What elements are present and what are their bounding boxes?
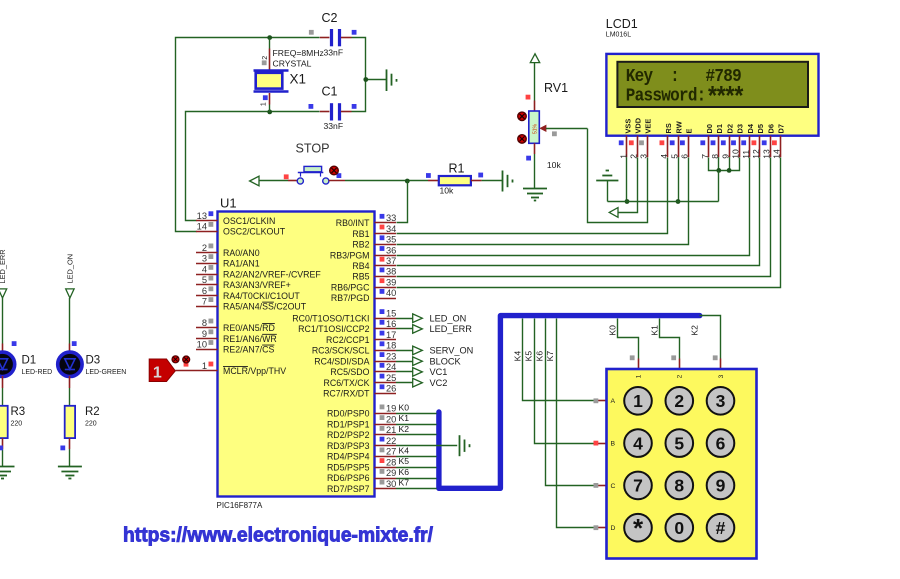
terminal output arrow SERV_ON (pin 18) (396, 346, 473, 356)
svg-text:D4: D4 (746, 123, 755, 133)
svg-text:35: 35 (386, 235, 396, 245)
wire VSS (LCD pin1) to ground rail (626, 157, 628, 201)
svg-text:LCD1: LCD1 (606, 17, 638, 31)
X1 reference label (290, 72, 307, 87)
keypad button 5 (666, 429, 694, 457)
svg-text:RB5: RB5 (352, 272, 369, 282)
svg-text:D6: D6 (766, 124, 775, 133)
svg-text:D3: D3 (736, 124, 745, 133)
svg-text:RD3/PSP3: RD3/PSP3 (327, 441, 370, 451)
U1 pin 35 (RB2) right (352, 235, 396, 250)
D3 type label LED-GREEN (86, 369, 127, 376)
svg-text:K4: K4 (512, 351, 522, 362)
LED D3 (58, 352, 82, 376)
wire RS (LCD pin4) to RB1 (397, 158, 668, 234)
RV1 state squares (526, 95, 557, 161)
D1 state squares (0, 341, 16, 450)
svg-text:11: 11 (741, 150, 751, 159)
svg-text:RA4/T0CKI/C1OUT: RA4/T0CKI/C1OUT (223, 291, 300, 301)
wire D7 (LCD pin14) to RB6 (397, 158, 781, 288)
ground (RD3, right-pointing) (460, 435, 470, 456)
svg-text:17: 17 (386, 330, 396, 340)
wire K1 bus to keypad column 2 (660, 319, 680, 370)
svg-text:19: 19 (386, 404, 396, 414)
D3 reference label (86, 355, 101, 367)
svg-text:13: 13 (761, 149, 771, 159)
crystal X1 (254, 38, 289, 112)
svg-text:9: 9 (716, 476, 726, 496)
svg-text:37: 37 (386, 256, 396, 266)
svg-text:6: 6 (202, 286, 207, 296)
terminal output arrow BLOCK (pin 23) (396, 356, 462, 366)
svg-text:#: # (716, 518, 726, 538)
ground (R3) (0, 467, 15, 479)
svg-text:K2: K2 (690, 325, 700, 336)
keypad button 7 (624, 472, 652, 500)
svg-text:3: 3 (716, 391, 726, 411)
svg-text:14: 14 (772, 149, 782, 159)
svg-text:23: 23 (386, 351, 396, 361)
wire D6 (LCD pin13) to RB5 (397, 158, 771, 277)
wire K1 (RD pin 20) to bus (396, 413, 437, 425)
wire OSC1 net (pin13 to crystal bottom node and C1) (186, 112, 320, 221)
svg-text:16: 16 (386, 319, 396, 329)
LCD1 pin 8 (D1) (710, 124, 724, 159)
wire K5 bus to keypad row (535, 319, 607, 444)
net label K0 (607, 325, 617, 336)
svg-text:RE2/AN7/CS: RE2/AN7/CS (223, 345, 274, 355)
wire RV1 top (534, 63, 536, 111)
svg-text:U1: U1 (220, 196, 237, 211)
keypad column state squares (630, 355, 718, 360)
X1 pin 2 state square (262, 60, 267, 65)
terminal input arrow (left of STOP) (250, 176, 259, 186)
X1 pin number 1 (260, 102, 267, 106)
U1 pin 16 (RC1) right (298, 319, 396, 334)
svg-text:D1: D1 (715, 124, 724, 133)
LED D1 (0, 352, 15, 376)
svg-text:2: 2 (677, 374, 684, 378)
svg-text:SERV_ON: SERV_ON (430, 346, 474, 356)
U1 pin 7 (RA5) left (196, 297, 307, 312)
node 1 flag (MCLR marker) (149, 359, 175, 382)
LCD1 pin 2 (VDD) (628, 117, 642, 159)
wire RB0 to STOP line (397, 181, 408, 223)
wire K0 (RD pin 19) to bus (396, 402, 437, 413)
wire R2 to ground (69, 438, 71, 467)
U1 pin 26 (RC7) right (323, 384, 396, 399)
svg-text:13: 13 (197, 211, 207, 221)
svg-text:2: 2 (202, 243, 207, 253)
wire K2 (RD pin 21) to bus (396, 424, 437, 435)
wire RW (LCD pin5) to ground rail (678, 157, 680, 201)
svg-text:27: 27 (386, 447, 396, 457)
svg-text:https://www.electronique-mixte: https://www.electronique-mixte.fr/ (123, 524, 433, 547)
wire terminal to D3 (69, 298, 71, 352)
svg-text:LED_ERR: LED_ERR (430, 324, 473, 334)
U1 pin 36 (RB3) right (330, 245, 396, 260)
node crystal bottom junction (267, 110, 272, 115)
svg-text:51%: 51% (533, 123, 539, 134)
push-button STOP (297, 166, 329, 184)
svg-text:12: 12 (751, 149, 761, 159)
svg-text:D0: D0 (705, 124, 714, 133)
svg-text:21: 21 (386, 425, 396, 435)
svg-text:RB0/INT: RB0/INT (336, 218, 370, 228)
keypad row labels A-D (611, 398, 616, 532)
svg-text:D2: D2 (726, 124, 735, 133)
svg-text:VEE: VEE (644, 119, 653, 134)
U1 pin 13 (OSC1) left (196, 211, 275, 226)
U1 pin 27 (RD4) right (327, 447, 396, 462)
svg-text:K0: K0 (607, 325, 617, 336)
svg-text:20: 20 (386, 414, 396, 424)
svg-text:RC7/RX/DT: RC7/RX/DT (323, 389, 370, 399)
C2 reference label (322, 11, 338, 25)
svg-text:RE0/AN5/RD: RE0/AN5/RD (223, 323, 275, 333)
svg-text:K5: K5 (523, 351, 533, 362)
keypad button 8 (666, 472, 694, 500)
wire K2 bus to keypad column 3 (700, 316, 721, 370)
svg-text:24: 24 (386, 362, 396, 372)
wire K0 bus to keypad column 1 (618, 319, 639, 370)
svg-text:RW: RW (674, 121, 683, 133)
terminal output arrow LED_ON (pin 15) (396, 313, 466, 323)
net label K2 (690, 325, 700, 336)
svg-text:33nF: 33nF (324, 121, 344, 131)
svg-text:K2: K2 (399, 424, 410, 434)
LCD1 pin 3 (VEE) (639, 119, 653, 159)
svg-text:36: 36 (386, 245, 396, 255)
X1 pin number 2 (262, 56, 269, 60)
ground (R2) (58, 467, 82, 479)
svg-text:8: 8 (202, 318, 207, 328)
svg-text:RD5/PSP5: RD5/PSP5 (327, 462, 370, 472)
LCD1 pin 14 (D7) (772, 124, 786, 159)
wire flag to MCLR pin 1 (175, 370, 196, 372)
svg-text:FREQ=8MHz: FREQ=8MHz (273, 48, 324, 58)
svg-text:X1: X1 (290, 72, 307, 87)
svg-text:RC1/T1OSI/CCP2: RC1/T1OSI/CCP2 (298, 324, 369, 334)
U1 pin 14 (OSC2) left (196, 222, 286, 237)
svg-text:RC6/TX/CK: RC6/TX/CK (324, 378, 370, 388)
keypad button 0 (666, 514, 694, 542)
wire K5 (RD pin 28) to bus (396, 456, 437, 468)
wire E (LCD pin6) to RB2 (397, 158, 689, 245)
svg-text:RB4: RB4 (352, 261, 369, 271)
op-amp/microcontroller U1 body (218, 212, 375, 497)
svg-text:D: D (611, 525, 616, 532)
LCD1 pin 6 (E) (680, 129, 694, 159)
keypad button 6 (707, 429, 735, 457)
U1 pin 8 (RE0) left (196, 318, 275, 333)
U1 pin 2 (RA0) left (196, 243, 260, 258)
ground (R1, right-pointing) (503, 171, 513, 192)
svg-text:2: 2 (262, 56, 269, 60)
svg-text:RD6/PSP6: RD6/PSP6 (327, 473, 370, 483)
keypad button # (707, 514, 735, 542)
wire STOP to R1 and RB0 (329, 180, 428, 182)
keypad button 4 (624, 429, 652, 457)
svg-text:10: 10 (197, 340, 207, 350)
svg-text:RS: RS (664, 123, 673, 133)
svg-text:RA3/AN3/VREF+: RA3/AN3/VREF+ (223, 280, 291, 290)
X1 pin 1 state square (263, 95, 268, 100)
U1 pin 21 (RD2) right (327, 425, 396, 440)
svg-text:LED_ON: LED_ON (66, 254, 75, 284)
svg-text:K4: K4 (399, 445, 410, 455)
LCD1 pin 5 (RW) (669, 121, 683, 159)
keypad body (607, 369, 757, 559)
LCD1 reference label (606, 17, 638, 31)
svg-text:VC2: VC2 (430, 378, 448, 388)
svg-text:RC4/SDI/SDA: RC4/SDI/SDA (314, 356, 369, 366)
LCD1 pin 12 (D5) (751, 124, 765, 159)
svg-text:K6: K6 (535, 351, 545, 362)
LCD1 pin 4 (RS) (659, 123, 673, 159)
flag actuator circles (172, 356, 190, 367)
wire D1 to R3 (2, 376, 4, 406)
U1 pin 6 (RA4) left (196, 286, 300, 301)
terminal input LED_ERR (above D1) (0, 289, 7, 298)
svg-text:RB7/PGD: RB7/PGD (331, 293, 370, 303)
wire VEE (LCD pin3) to RV1 wiper (588, 129, 648, 223)
keypad column labels 1-3 (635, 374, 725, 378)
U1 pin 30 (RD7) right (327, 479, 396, 494)
node RW junction (676, 199, 681, 204)
svg-text:1: 1 (633, 391, 643, 411)
wire D0-D3 tie (LCD pins 7-10) (709, 157, 740, 170)
svg-text:5: 5 (674, 433, 684, 453)
svg-text:LED_ERR: LED_ERR (0, 249, 7, 283)
U1 pin 33 (RB0) right (336, 213, 397, 228)
wire VDD (LCD pin2) to power terminal (619, 158, 638, 213)
bus keypad (thick blue) (439, 316, 700, 489)
RV1 wiper arrow (540, 125, 587, 131)
LCD1 part label LM016L (606, 32, 631, 39)
wire K7 (RD pin 30) to bus (396, 478, 437, 489)
STOP state squares (284, 173, 342, 179)
wire D4 (LCD pin11) to RB3 (397, 158, 750, 256)
node VSS junction (625, 199, 630, 204)
svg-text:MCLR/Vpp/THV: MCLR/Vpp/THV (223, 366, 286, 376)
svg-text:R2: R2 (85, 406, 100, 418)
wire K4 bus to keypad row (523, 319, 607, 401)
svg-text:K7: K7 (399, 478, 410, 488)
C2 state squares (309, 30, 357, 35)
svg-text:28: 28 (386, 457, 396, 467)
STOP actuator red dot (330, 166, 339, 175)
LCD1 pin 9 (D2) (720, 124, 734, 159)
U1 pin 40 (RB7) right (331, 288, 396, 303)
svg-text:40: 40 (386, 288, 396, 298)
U1 pin 3 (RA1) left (196, 254, 260, 269)
svg-text:1: 1 (260, 102, 267, 106)
svg-text:VC1: VC1 (430, 367, 448, 377)
C1 value label 33nF (324, 121, 344, 131)
U1 pin 25 (RC6) right (324, 373, 397, 388)
D3 state squares (60, 341, 76, 450)
svg-text:RA1/AN1: RA1/AN1 (223, 259, 260, 269)
svg-text:25: 25 (386, 373, 396, 383)
svg-text:RB1: RB1 (352, 229, 369, 239)
D1 type label LED-RED (22, 369, 53, 376)
net label LED_ON (66, 254, 75, 284)
wire K6 (RD pin 29) to bus (396, 467, 437, 479)
wire R3 to ground (2, 438, 4, 467)
keypad button 1 (624, 387, 652, 415)
net label K7 (545, 351, 555, 362)
svg-text:RC2/CCP1: RC2/CCP1 (326, 335, 370, 345)
U1 pin 24 (RC5) right (330, 362, 396, 377)
terminal output arrow VC1 (pin 24) (396, 367, 447, 377)
terminal output arrow VC2 (pin 25) (396, 378, 447, 388)
power terminal (RV1 top) (530, 54, 539, 63)
svg-text:8: 8 (674, 476, 684, 496)
svg-text:K7: K7 (545, 351, 555, 362)
net label LED_ERR (0, 249, 7, 283)
resistor R2 (65, 406, 75, 438)
LCD screen text line 1: Key : #789 (626, 66, 742, 88)
svg-text:3: 3 (718, 374, 725, 378)
svg-text:10k: 10k (440, 185, 455, 195)
node crystal top junction (267, 35, 272, 40)
capacitor C2 (320, 29, 352, 46)
net label K6 (535, 351, 545, 362)
U1 pin 39 (RB6) right (331, 278, 396, 293)
U1 pin 1 () left (196, 361, 286, 376)
svg-text:C1: C1 (322, 85, 338, 99)
svg-text:LED-RED: LED-RED (22, 369, 53, 376)
U1 pin 20 (RD1) right (327, 414, 396, 429)
U1 pin 9 (RE1) left (196, 329, 277, 344)
svg-text:3: 3 (202, 254, 207, 264)
wire D3 to R2 (69, 376, 71, 406)
resistor R3 (0, 406, 8, 438)
svg-text:1: 1 (202, 361, 207, 371)
wire RD3 (pin 22) to ground (396, 445, 457, 447)
svg-text:D5: D5 (756, 124, 765, 133)
U1 pin 34 (RB1) right (352, 224, 396, 239)
svg-text:RE1/AN6/WR: RE1/AN6/WR (223, 334, 277, 344)
C2 value label 33nF (324, 47, 344, 57)
wire OSC2 net (pin14 to crystal top node and C2) (176, 38, 320, 232)
svg-text:C: C (611, 483, 616, 490)
svg-text:K1: K1 (399, 413, 410, 423)
svg-text:RA2/AN2/VREF-/CVREF: RA2/AN2/VREF-/CVREF (223, 270, 321, 280)
svg-text:0: 0 (674, 518, 684, 538)
svg-text:18: 18 (386, 341, 396, 351)
svg-text:RD2/PSP2: RD2/PSP2 (327, 430, 370, 440)
svg-text:OSC2/CLKOUT: OSC2/CLKOUT (223, 227, 286, 237)
svg-text:RA0/AN0: RA0/AN0 (223, 248, 260, 258)
svg-text:RD0/PSP0: RD0/PSP0 (327, 409, 370, 419)
svg-text:OSC1/CLKIN: OSC1/CLKIN (223, 216, 275, 226)
svg-text:CRYSTAL: CRYSTAL (273, 58, 312, 68)
svg-text:30: 30 (386, 479, 396, 489)
U1 part number label PIC16F877A (217, 501, 263, 510)
svg-text:10k: 10k (547, 160, 562, 170)
U1 pin 28 (RD5) right (327, 457, 396, 472)
wire K7 bus to keypad row (557, 319, 607, 528)
ground (RV1) (523, 189, 547, 201)
terminal power arrow (VDD) (609, 208, 618, 218)
svg-text:A: A (611, 398, 616, 405)
svg-text:29: 29 (386, 468, 396, 478)
keypad button * (624, 513, 652, 543)
capacitor C1 (320, 103, 352, 120)
U1 pin 15 (RC0) right (292, 308, 396, 323)
svg-text:9: 9 (202, 329, 207, 339)
svg-text:220: 220 (85, 420, 97, 427)
svg-text:RB6/PGC: RB6/PGC (331, 283, 370, 293)
svg-text:33: 33 (386, 213, 396, 223)
svg-text:RD1/PSP1: RD1/PSP1 (327, 419, 370, 429)
svg-text:RC5/SDO: RC5/SDO (330, 367, 369, 377)
svg-text:5: 5 (202, 275, 207, 285)
svg-text:22: 22 (386, 436, 396, 446)
svg-text:10: 10 (731, 149, 741, 159)
svg-text:4: 4 (633, 433, 643, 453)
wire D5 (LCD pin12) to RB4 (397, 158, 760, 266)
svg-text:STOP: STOP (296, 142, 330, 156)
svg-text:RB2: RB2 (352, 240, 369, 250)
D1 reference label (22, 355, 37, 367)
R1 reference label (449, 161, 465, 175)
svg-text:R3: R3 (11, 406, 26, 418)
svg-text:VSS: VSS (623, 119, 632, 134)
svg-text:D7: D7 (777, 124, 786, 133)
svg-text:D1: D1 (22, 355, 37, 367)
svg-text:2: 2 (674, 391, 684, 411)
svg-text:LED-GREEN: LED-GREEN (86, 369, 127, 376)
U1 pin 29 (RD6) right (327, 468, 396, 483)
node D2 junction (727, 168, 732, 173)
svg-text:K6: K6 (399, 467, 410, 477)
svg-text:RB3/PGM: RB3/PGM (330, 250, 370, 260)
LCD1 pin 10 (D3) (731, 124, 745, 159)
svg-text:K0: K0 (399, 402, 410, 412)
U1 pin 37 (RB4) right (352, 256, 396, 271)
svg-text:220: 220 (11, 420, 23, 427)
svg-text:4: 4 (202, 265, 207, 275)
net label K4 (512, 351, 522, 362)
RV1 reference label (544, 81, 568, 95)
R2 reference label (85, 406, 100, 418)
svg-text:39: 39 (386, 278, 396, 288)
R3 value label 220 (11, 420, 23, 427)
node STOP/R1/RB0 junction (405, 179, 410, 184)
U1 pin 5 (RA3) left (196, 275, 291, 290)
wire C2/C1 right side to ground (352, 38, 387, 112)
X1 value label FREQ=8MHz CRYSTAL (273, 48, 324, 69)
svg-text:1: 1 (635, 374, 642, 378)
net label K5 (523, 351, 533, 362)
svg-text:1: 1 (153, 365, 162, 382)
ground (LCD rail, bars above) (596, 171, 618, 202)
R1 value label 10k (440, 185, 455, 195)
R2 value label 220 (85, 420, 97, 427)
R3 reference label (11, 406, 26, 418)
URL caption (123, 524, 433, 547)
U1 reference label (220, 196, 237, 211)
svg-text:7: 7 (633, 476, 643, 496)
keypad button 3 (707, 387, 735, 415)
STOP label (296, 142, 330, 156)
LCD1 pin 13 (D6) (761, 124, 775, 159)
LCD1 pin 7 (D0) (700, 124, 714, 159)
C1 reference label (322, 85, 338, 99)
